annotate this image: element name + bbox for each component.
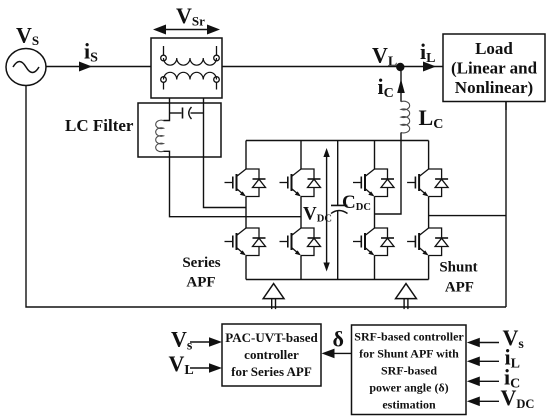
- svg-text:controller: controller: [244, 347, 299, 362]
- svg-text:VS: VS: [16, 23, 39, 49]
- svg-text:SRF-based: SRF-based: [381, 364, 437, 378]
- svg-text:for Series APF: for Series APF: [231, 364, 312, 379]
- svg-text:Series: Series: [182, 255, 220, 271]
- svg-text:PAC-UVT-based: PAC-UVT-based: [225, 330, 318, 345]
- svg-text:SRF-based controller: SRF-based controller: [354, 330, 464, 344]
- svg-text:VDC: VDC: [303, 204, 332, 225]
- svg-text:VL: VL: [372, 43, 397, 70]
- svg-text:LC: LC: [419, 105, 444, 132]
- svg-text:estimation: estimation: [382, 398, 436, 412]
- svg-text:δ: δ: [333, 327, 344, 352]
- svg-text:Vs: Vs: [171, 326, 193, 353]
- svg-text:power angle (δ): power angle (δ): [369, 381, 448, 395]
- svg-text:VL: VL: [169, 351, 194, 378]
- svg-text:LC Filter: LC Filter: [65, 116, 134, 135]
- svg-text:Load: Load: [475, 39, 513, 58]
- svg-text:Shunt: Shunt: [439, 259, 477, 275]
- svg-text:iS: iS: [84, 39, 98, 66]
- svg-text:Nonlinear): Nonlinear): [455, 78, 533, 97]
- svg-text:CDC: CDC: [342, 192, 371, 213]
- svg-text:(Linear and: (Linear and: [451, 59, 538, 78]
- svg-text:iC: iC: [378, 74, 394, 101]
- svg-text:for Shunt APF with: for Shunt APF with: [359, 347, 459, 361]
- svg-text:APF: APF: [445, 280, 474, 296]
- svg-text:VSr: VSr: [176, 3, 205, 29]
- svg-text:iL: iL: [420, 39, 435, 66]
- svg-text:APF: APF: [186, 275, 215, 291]
